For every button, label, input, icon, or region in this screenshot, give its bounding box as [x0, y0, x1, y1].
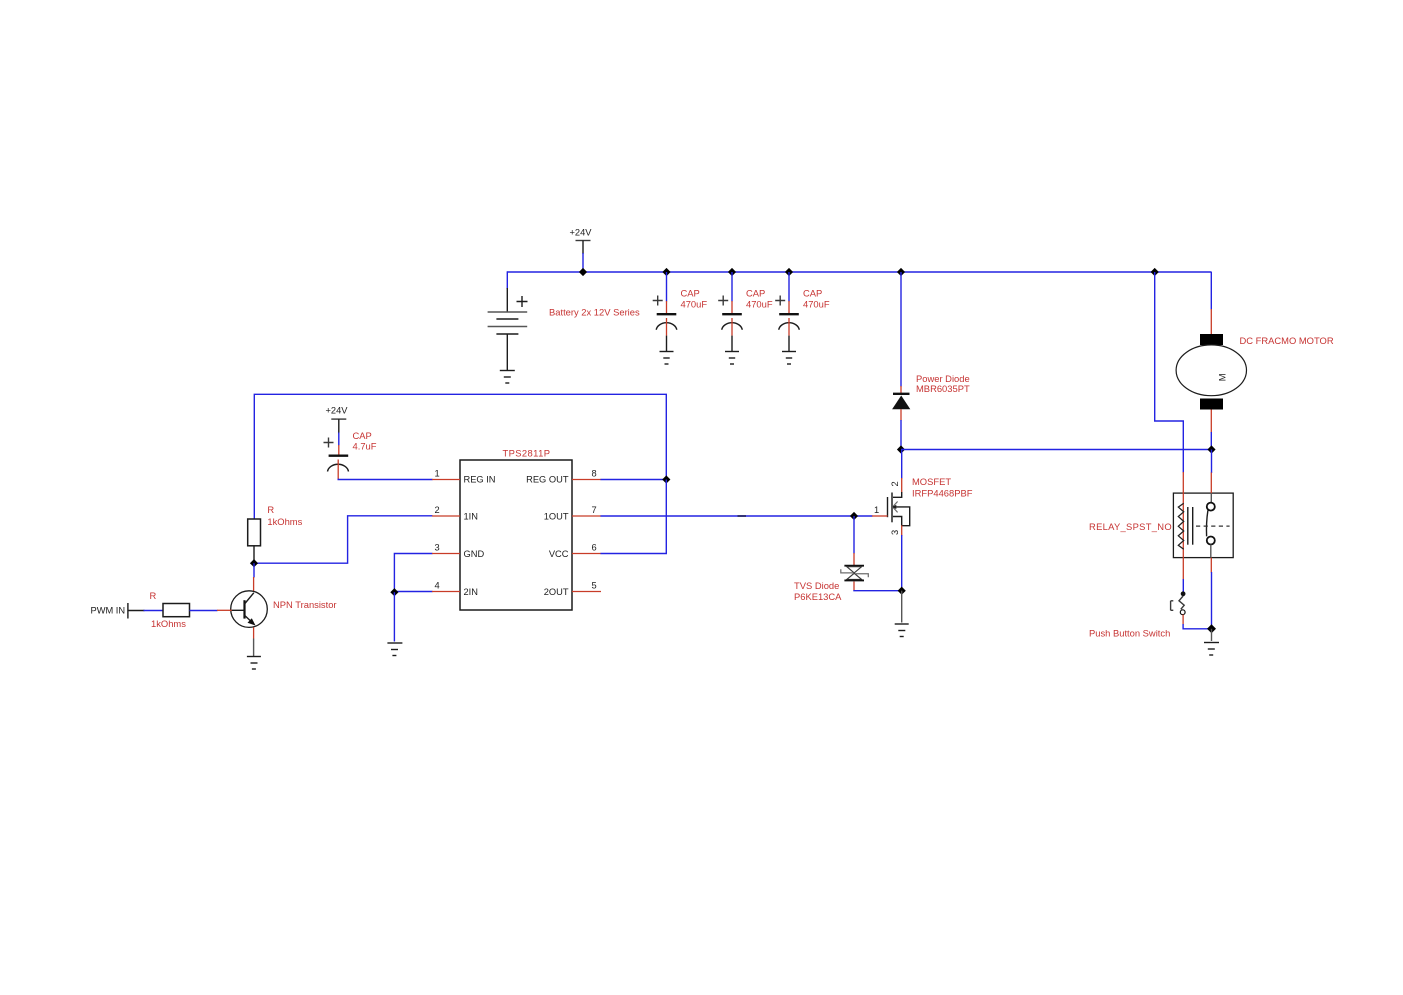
wire source drop [901, 535, 903, 591]
node junction rail/relay-feed [1151, 268, 1159, 276]
node junction rail/C2 [728, 268, 736, 276]
node junction rail/C1 [662, 268, 670, 276]
svg-text:1kOhms: 1kOhms [267, 516, 302, 527]
label R1 R 1kOhms [267, 504, 302, 527]
svg-text:CAP: CAP [803, 288, 822, 299]
port PWM IN [91, 603, 145, 619]
wire drain node to motor node [901, 449, 1212, 451]
battery BT1 Battery 2x 12V Series [488, 288, 528, 370]
power symbol +24V (cap 4.7uF) [326, 406, 349, 446]
ground (C3) [782, 352, 796, 365]
ground (C2) [725, 352, 739, 365]
svg-text:DC FRACMO MOTOR: DC FRACMO MOTOR [1240, 335, 1334, 346]
wire rail to diode [900, 272, 902, 387]
switch S1 Push Button [1171, 591, 1186, 624]
wire pin4 run [394, 591, 432, 593]
node junction push button net [1207, 624, 1216, 633]
op-amp U1 TPS2811P body [460, 448, 572, 611]
svg-text:MBR6035PT: MBR6035PT [916, 383, 970, 394]
label C1 CAP 470uF [681, 288, 708, 310]
svg-text:5: 5 [592, 581, 597, 591]
label R2 R 1kOhms [150, 590, 187, 629]
node junction motor bottom [1207, 445, 1215, 453]
svg-text:4.7uF: 4.7uF [353, 441, 377, 452]
ground (battery) [500, 371, 515, 384]
svg-text:4: 4 [435, 581, 440, 591]
svg-text:8: 8 [592, 469, 597, 479]
wire relay contact to pb node [1211, 572, 1213, 629]
capacitor C3 470uF [775, 272, 799, 351]
svg-text:1IN: 1IN [464, 512, 478, 522]
ground (push button net) [1204, 643, 1219, 656]
wire pin7 to gate [601, 515, 873, 517]
node junction IC ground [390, 588, 398, 596]
label NPN Transistor [273, 599, 337, 610]
capacitor C2 470uF [718, 272, 742, 351]
svg-text:TVS Diode: TVS Diode [794, 580, 839, 591]
node junction rail/+24V [579, 268, 587, 276]
wire TVS to source node [854, 589, 901, 592]
wire C4 to pin1 [338, 478, 432, 481]
label TVS Diode P6KE13CA [794, 580, 842, 602]
node junction rail/C3 [785, 268, 793, 276]
transistor Q1 NPN [231, 577, 268, 656]
wire pin3 run [394, 554, 432, 593]
relay K1 RELAY_SPST_NO [1173, 472, 1233, 580]
svg-text:REG IN: REG IN [464, 475, 496, 485]
svg-text:1kOhms: 1kOhms [151, 618, 186, 629]
svg-text:470uF: 470uF [681, 299, 708, 310]
label RELAY_SPST_NO [1089, 521, 1172, 532]
pin 4 2IN [432, 581, 478, 598]
svg-text:P6KE13CA: P6KE13CA [794, 591, 842, 602]
svg-text:M: M [1217, 374, 1227, 382]
wire pb node to ground [1211, 629, 1213, 641]
svg-text:7: 7 [592, 505, 597, 515]
svg-text:RELAY_SPST_NO: RELAY_SPST_NO [1089, 521, 1172, 532]
node junction source [898, 587, 906, 595]
pin 3 GND [432, 543, 484, 560]
svg-text:2: 2 [435, 505, 440, 515]
wire gate stub [872, 515, 888, 517]
ground (MOSFET source) [895, 624, 909, 637]
svg-text:1: 1 [435, 469, 440, 479]
wire diode to drain node [900, 420, 902, 450]
svg-text:Battery 2x 12V Series: Battery 2x 12V Series [549, 307, 640, 318]
label Power Diode MBR6035PT [916, 373, 970, 394]
wire IC ground drop [393, 592, 395, 641]
wire +24V rail [507, 271, 1211, 273]
wire coil to push button [1182, 579, 1184, 592]
svg-text:+24V: +24V [326, 406, 349, 416]
pin 5 2OUT [544, 581, 601, 598]
svg-text:CAP: CAP [681, 288, 700, 299]
label C2 CAP 470uF [746, 288, 773, 310]
pin 8 REG OUT [526, 469, 601, 485]
svg-text:PWM IN: PWM IN [91, 606, 126, 616]
label MOSFET IRFP4468PBF [912, 476, 973, 499]
label C4 CAP 4.7uF [353, 430, 377, 452]
capacitor C1 470uF [653, 272, 677, 351]
pin 2 1IN [432, 505, 478, 522]
svg-text:CAP: CAP [353, 430, 372, 441]
node junction rail/diode [897, 268, 905, 276]
svg-text:1: 1 [874, 505, 879, 515]
wire collector stub [253, 563, 255, 577]
capacitor C4 4.7uF [324, 438, 349, 480]
svg-text:2OUT: 2OUT [544, 587, 569, 597]
transistor Q2 MOSFET IRFP4468PBF [874, 478, 910, 536]
ground (C1) [660, 352, 674, 365]
wire source to ground [901, 591, 903, 623]
svg-text:NPN Transistor: NPN Transistor [273, 599, 337, 610]
diode D1 Power Diode MBR6035PT [892, 386, 910, 421]
svg-text:REG OUT: REG OUT [526, 475, 569, 485]
svg-text:3: 3 [435, 543, 440, 553]
pin 7 1OUT [544, 505, 601, 522]
wire pin8 to VCC node [601, 479, 667, 481]
wire VCC vertical to pin6 [601, 480, 667, 554]
ground (Q1 emitter) [247, 657, 261, 670]
svg-text:TPS2811P: TPS2811P [503, 448, 551, 459]
wire PWM to R2 [144, 610, 164, 612]
node junction collector [250, 559, 258, 567]
svg-text:VCC: VCC [549, 549, 569, 559]
pin 1 REG IN [432, 469, 496, 485]
wire gate to TVS [853, 516, 855, 554]
svg-text:6: 6 [592, 543, 597, 553]
node junction pin8 [662, 475, 670, 483]
wire VCC top run [254, 394, 666, 520]
svg-text:Push Button Switch: Push Button Switch [1089, 628, 1170, 639]
resistor R2 1kOhms (base) [163, 604, 190, 617]
label DC FRACMO MOTOR [1240, 335, 1334, 346]
svg-text:470uF: 470uF [746, 299, 773, 310]
label Push Button Switch [1089, 628, 1170, 639]
svg-text:R: R [150, 590, 157, 601]
wire drain drop [901, 450, 903, 479]
node junction drain [897, 445, 905, 453]
svg-text:CAP: CAP [746, 288, 765, 299]
svg-text:2IN: 2IN [464, 587, 478, 597]
node junction gate [850, 512, 858, 520]
label Battery 2x 12V Series [549, 307, 640, 318]
svg-text:IRFP4468PBF: IRFP4468PBF [912, 488, 973, 499]
pin 6 VCC [549, 543, 601, 560]
wire pin2 run [255, 516, 433, 563]
label C3 CAP 470uF [803, 288, 830, 310]
wire R2 to base [190, 610, 218, 612]
svg-text:MOSFET: MOSFET [912, 476, 951, 487]
wire push button to pb node [1183, 624, 1211, 629]
svg-text:3: 3 [890, 530, 900, 535]
ground (IC) [387, 643, 402, 656]
svg-text:470uF: 470uF [803, 299, 830, 310]
wire base stub [217, 609, 232, 611]
motor M1 DC FRACMO MOTOR [1176, 309, 1246, 450]
wire relay coil feed [1155, 272, 1184, 473]
resistor R1 1kOhms (pull-up) [248, 519, 261, 561]
wire battery drop [506, 271, 508, 289]
svg-text:1OUT: 1OUT [544, 512, 569, 522]
power symbol +24V (top) [570, 228, 593, 273]
diode D2 TVS P6KE13CA [841, 553, 869, 591]
wire motor node to relay contact [1211, 450, 1213, 474]
svg-text:GND: GND [464, 549, 485, 559]
svg-text:R: R [267, 504, 274, 515]
svg-text:+24V: +24V [570, 228, 593, 238]
wire motor feed corner [1210, 272, 1212, 310]
svg-text:2: 2 [890, 481, 900, 486]
